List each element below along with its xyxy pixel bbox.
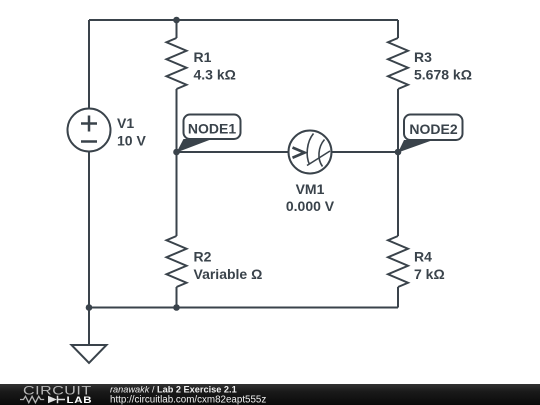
- wire branch B top lead: [397, 20, 399, 38]
- wire VM1 to node2: [332, 151, 399, 153]
- wire branch A bottom lead: [176, 287, 178, 308]
- svg-text:ranawakk / Lab 2 Exercise 2.1: ranawakk / Lab 2 Exercise 2.1: [110, 384, 237, 394]
- logo diode glyph: [48, 396, 57, 403]
- wire node1 to VM1: [177, 151, 289, 153]
- svg-text:V1: V1: [117, 115, 134, 131]
- wire branch B middle: [397, 89, 399, 236]
- wire bottom rail: [89, 307, 398, 309]
- svg-text:7 kΩ: 7 kΩ: [414, 266, 445, 282]
- voltmeter VM1: [289, 131, 332, 174]
- wire branch B bottom lead: [397, 287, 399, 308]
- node NODE2 callout: [398, 115, 463, 153]
- junction bottom branch A: [173, 304, 180, 311]
- ground: [72, 345, 107, 363]
- resistor R3: [388, 38, 408, 89]
- wire branch A middle: [176, 89, 178, 236]
- svg-text:NODE2: NODE2: [409, 121, 457, 137]
- voltage source V1: [68, 109, 111, 152]
- svg-text:VM1: VM1: [296, 181, 325, 197]
- node NODE1 callout: [177, 115, 241, 153]
- svg-text:10 V: 10 V: [117, 133, 146, 149]
- svg-text:NODE1: NODE1: [188, 121, 236, 137]
- resistor R2: [167, 236, 187, 287]
- junction node B (NODE2): [395, 149, 402, 156]
- wire top rail: [89, 19, 398, 21]
- svg-text:LAB: LAB: [67, 396, 93, 405]
- junction dot top of branch A: [173, 17, 180, 24]
- svg-text:0.000 V: 0.000 V: [286, 198, 335, 214]
- wire branch A top lead: [176, 20, 178, 38]
- wire left top (V1 to top rail): [88, 20, 90, 109]
- resistor R1: [167, 38, 187, 89]
- svg-text:Variable Ω: Variable Ω: [194, 266, 263, 282]
- svg-text:4.3 kΩ: 4.3 kΩ: [194, 67, 236, 83]
- wire left bottom (V1 to ground): [88, 152, 90, 346]
- svg-text:R3: R3: [414, 49, 432, 65]
- svg-text:5.678 kΩ: 5.678 kΩ: [414, 67, 472, 83]
- resistor R4: [388, 236, 408, 287]
- logo resistor glyph: [20, 396, 44, 402]
- junction node A (NODE1): [173, 149, 180, 156]
- svg-text:R4: R4: [414, 249, 432, 265]
- svg-text:R1: R1: [194, 49, 212, 65]
- junction bottom left: [86, 304, 93, 311]
- svg-text:R2: R2: [194, 249, 212, 265]
- svg-text:http://circuitlab.com/cxm82eap: http://circuitlab.com/cxm82eapt555z: [110, 394, 266, 405]
